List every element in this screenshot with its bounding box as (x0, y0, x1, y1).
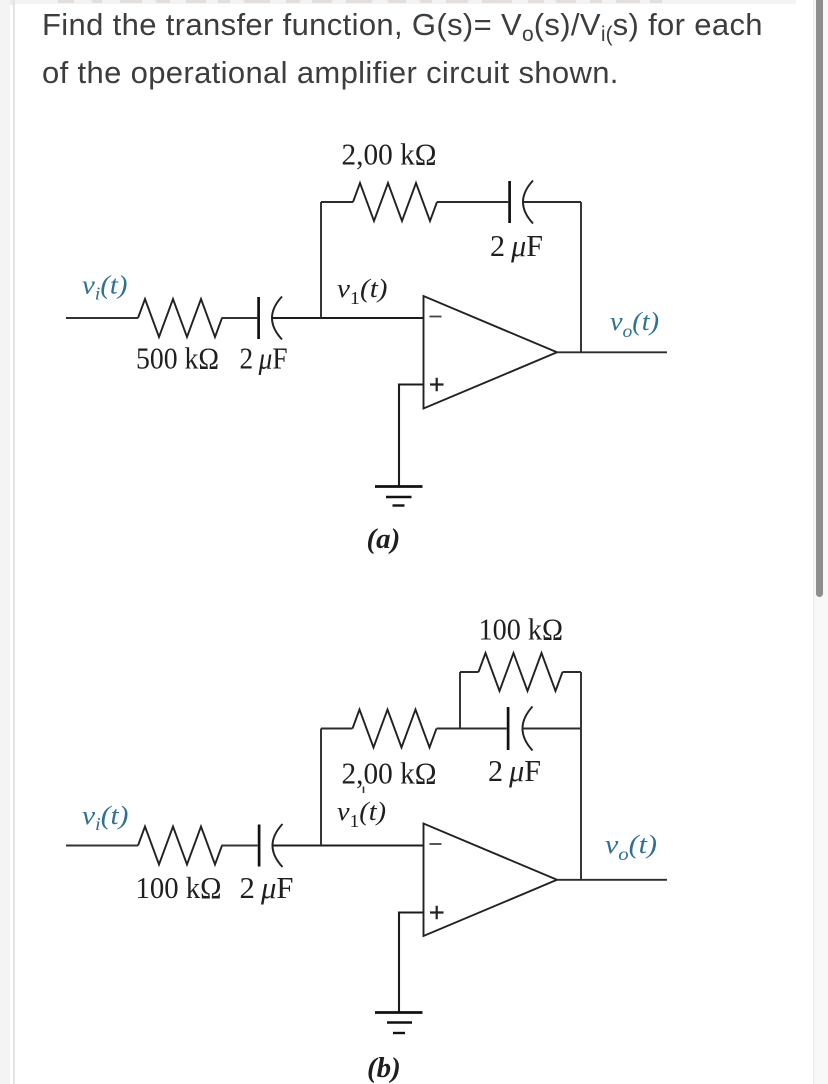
label v1(t) node voltage (b) (337, 797, 386, 831)
svg-text:500 kΩ: 500 kΩ (136, 341, 219, 376)
svg-text:2,00 kΩ: 2,00 kΩ (342, 755, 437, 790)
wire: input lead (b) (66, 845, 138, 847)
left gutter strip (0, 0, 10, 1084)
label (a) (367, 523, 401, 555)
wire: resistor to capacitor (a) (222, 317, 258, 319)
wire: non-inverting input to ground (a) (399, 385, 424, 487)
label vi(t) input voltage (b) (82, 801, 129, 834)
wire: parallel branch top right segment (b) (563, 671, 582, 673)
scrollbar track (813, 0, 828, 1084)
wire: capacitor to op-amp inverting input, node v1 (b) (273, 844, 424, 846)
label 2 uF (b feedback capacitor value) (488, 753, 541, 788)
wire: feedback capacitor to right corner (b) (523, 728, 582, 730)
svg-text:2 μF: 2 μF (488, 753, 541, 788)
problem statement line 1 (42, 7, 763, 43)
capacitor 2uF (b feedback) (508, 707, 532, 751)
label 2 uF (b input capacitor value) (240, 870, 294, 905)
op-amp U2 (b) (424, 824, 558, 937)
left border line (13, 0, 15, 1084)
svg-text:v1(t): v1(t) (337, 797, 386, 831)
wire: feedback resistor to capacitor (b) (437, 728, 507, 730)
scrollbar thumb (816, 0, 824, 597)
svg-text:vo(t): vo(t) (605, 830, 657, 864)
label vo(t) output voltage (b) (605, 830, 657, 864)
label vi(t) input voltage (a) (82, 271, 128, 304)
wire: feedback capacitor to right corner (a) (523, 201, 581, 203)
svg-text:(b): (b) (367, 1052, 401, 1084)
svg-text:2,00 kΩ: 2,00 kΩ (342, 137, 437, 172)
problem statement line 2 (42, 55, 619, 91)
capacitor 2uF (a feedback) (510, 181, 533, 224)
label vo(t) output voltage (a) (610, 307, 659, 341)
wire: feedback resistor to capacitor (a) (437, 201, 508, 203)
label 2.00 kOhm (a feedback resistor value) (342, 137, 437, 172)
capacitor 2uF (a input) (259, 297, 282, 340)
top edge strip (cropped previous content) (0, 0, 796, 4)
wire: feedback right drop to output (b) (580, 672, 582, 880)
label 100 kOhm (b parallel resistor value) (479, 612, 564, 647)
plus sign at non-inverting input (b) (430, 906, 444, 920)
wire: feedback top left segment (a) (321, 201, 353, 203)
svg-text:100 kΩ: 100 kΩ (479, 612, 564, 647)
wire: parallel branch riser (b) (459, 672, 461, 729)
label 2 uF (a feedback capacitor value) (490, 228, 543, 263)
wire: feedback right drop to output (a) (580, 202, 582, 352)
minus sign at inverting input (b) (430, 843, 442, 845)
wire: parallel branch top left segment (b) (460, 671, 479, 673)
wire: non-inverting input to ground (b) (399, 913, 424, 1013)
wire: feedback top left segment (b) (321, 728, 353, 730)
capacitor 2uF (b input) (259, 824, 282, 867)
label (b) (367, 1052, 401, 1084)
op-amp U1 (a) (424, 296, 558, 409)
resistor 100 kOhm (b parallel feedback) (479, 653, 563, 691)
wire: node v1 riser to feedback (a) (320, 202, 322, 318)
svg-text:2 μF: 2 μF (240, 341, 288, 376)
svg-text:100 kΩ: 100 kΩ (136, 870, 222, 905)
svg-text:vi(t): vi(t) (82, 801, 129, 834)
resistor 2.00 kOhm (b feedback) (353, 710, 437, 748)
label v1(t) node voltage (a) (337, 274, 388, 308)
wire: output lead (a) (557, 351, 667, 353)
wire: input lead (a) (66, 317, 138, 319)
label 100 kOhm (b input resistor value) (136, 870, 222, 905)
stray tick under label (b) (363, 787, 365, 794)
svg-text:2 μF: 2 μF (240, 870, 294, 905)
plus sign at non-inverting input (a) (430, 378, 444, 392)
resistor 2.00 kOhm (a feedback) (353, 183, 437, 221)
label 2 uF (a input capacitor value) (240, 341, 288, 376)
label 500 kOhm (a input resistor value) (136, 341, 219, 376)
resistor 500 kOhm (a input) (138, 299, 222, 337)
wire: output lead (b) (557, 879, 667, 881)
svg-text:vo(t): vo(t) (610, 307, 659, 341)
wire: node v1 riser to feedback (b) (320, 729, 322, 846)
resistor 100 kOhm (b input) (138, 827, 222, 865)
svg-text:v1(t): v1(t) (337, 274, 388, 308)
minus sign at inverting input (a) (430, 316, 442, 318)
wire: capacitor to op-amp inverting input, node v1 (a) (272, 317, 424, 319)
ground (a) (375, 487, 423, 506)
svg-text:vi(t): vi(t) (82, 271, 128, 304)
svg-text:2 μF: 2 μF (490, 228, 543, 263)
wire: resistor to capacitor (b) (222, 845, 258, 847)
svg-text:(a): (a) (367, 523, 401, 555)
ground (b) (375, 1013, 423, 1034)
